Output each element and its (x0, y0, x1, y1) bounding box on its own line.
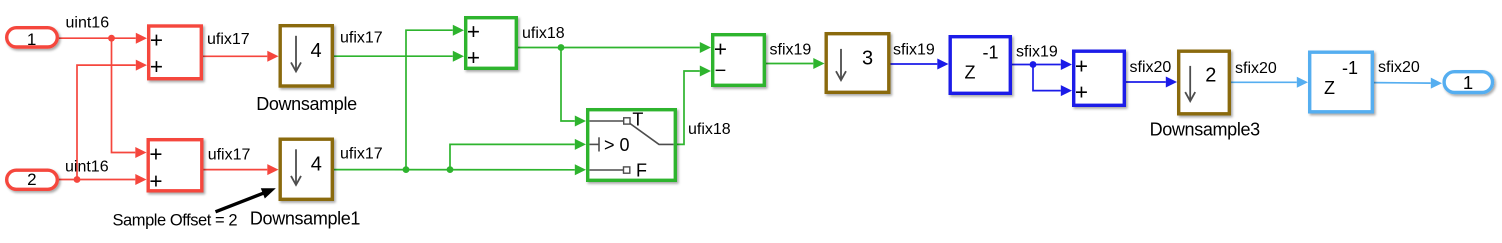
svg-text:uint16: uint16 (66, 15, 110, 32)
svg-text:ufix17: ufix17 (340, 146, 383, 163)
svg-text:uint16: uint16 (65, 159, 109, 176)
svg-text:Z: Z (1324, 78, 1335, 98)
svg-text:Downsample: Downsample (256, 94, 357, 114)
svg-text:3: 3 (862, 47, 873, 69)
svg-text:ufix18: ufix18 (522, 25, 565, 42)
svg-text:sfix19: sfix19 (770, 41, 812, 58)
svg-text:−: − (715, 60, 727, 82)
svg-text:+: + (1075, 80, 1088, 105)
svg-text:4: 4 (311, 40, 322, 62)
svg-text:2: 2 (27, 170, 36, 189)
svg-text:+: + (150, 27, 163, 52)
svg-text:> 0: > 0 (604, 135, 630, 155)
svg-text:-1: -1 (1342, 58, 1358, 78)
svg-text:F: F (636, 161, 647, 181)
svg-text:Z: Z (965, 63, 976, 83)
svg-text:4: 4 (311, 153, 322, 175)
svg-text:Downsample3: Downsample3 (1150, 120, 1261, 140)
svg-text:ufix18: ufix18 (688, 121, 731, 138)
svg-text:Sample Offset = 2: Sample Offset = 2 (113, 212, 238, 230)
svg-text:-1: -1 (982, 43, 998, 63)
svg-text:+: + (149, 141, 162, 166)
svg-text:+: + (467, 45, 480, 70)
svg-text:+: + (149, 168, 162, 193)
svg-text:sfix20: sfix20 (1130, 59, 1172, 76)
svg-text:+: + (150, 54, 163, 79)
svg-text:ufix17: ufix17 (207, 31, 250, 48)
svg-text:1: 1 (27, 30, 36, 49)
svg-text:sfix19: sfix19 (893, 41, 935, 58)
svg-text:ufix17: ufix17 (208, 147, 251, 164)
svg-text:Downsample1: Downsample1 (250, 208, 361, 228)
svg-text:+: + (467, 19, 480, 44)
svg-text:+: + (714, 37, 727, 62)
svg-text:2: 2 (1205, 64, 1216, 86)
svg-text:sfix20: sfix20 (1378, 59, 1420, 76)
svg-text:sfix19: sfix19 (1016, 44, 1058, 61)
svg-text:ufix17: ufix17 (340, 29, 383, 46)
svg-text:sfix20: sfix20 (1235, 60, 1277, 77)
svg-text:1: 1 (1463, 72, 1473, 93)
svg-text:+: + (1075, 53, 1088, 78)
